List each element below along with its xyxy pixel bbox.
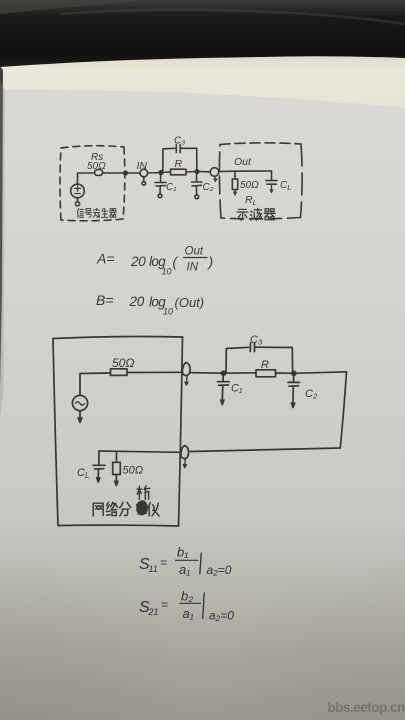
node junction C2b (292, 371, 296, 375)
capacitor C2 (192, 172, 203, 199)
fraction bar S21 (180, 602, 202, 604)
resistor R (171, 169, 187, 175)
svg-text:R: R (261, 359, 269, 371)
label C2 (203, 182, 214, 193)
svg-text:bbs.eetop.cn: bbs.eetop.cn (328, 700, 405, 715)
node Out (210, 168, 219, 182)
svg-text:C₂: C₂ (305, 388, 318, 400)
label Rs (91, 152, 103, 163)
svg-text:Out: Out (185, 246, 204, 258)
scribbled-out character (137, 501, 148, 515)
resistor Rs (94, 169, 104, 175)
capacitor CL (266, 171, 277, 193)
label: network analyzer 网络分(析)仪 (93, 486, 159, 516)
capacitor C3 bypass (circuit2) (226, 343, 293, 373)
svg-text:C₃: C₃ (250, 334, 263, 346)
label 50ohm source c2 (112, 356, 134, 370)
svg-text:b₁: b₁ (177, 545, 188, 560)
wire port1 to C1 (190, 372, 224, 375)
node junction C1b (222, 371, 226, 375)
wire source to Rs (78, 173, 94, 184)
svg-text:R: R (175, 158, 183, 170)
wire R to C2 junction (276, 372, 295, 374)
label R (175, 158, 183, 170)
source (AC) (72, 395, 87, 422)
label 50ohm load (240, 180, 259, 191)
svg-text:a₁: a₁ (183, 606, 194, 621)
svg-text:C₁: C₁ (231, 383, 243, 395)
label 50ohm source (87, 161, 106, 172)
svg-text:50Ω: 50Ω (87, 161, 106, 172)
wire IN to C1 junction (148, 172, 171, 173)
wire R to C2 junction (186, 171, 210, 174)
bar S11 (200, 553, 202, 575)
svg-text:IN: IN (187, 262, 199, 274)
svg-text:10: 10 (163, 307, 173, 317)
capacitor C2 (circuit2) (288, 373, 300, 407)
black cable (0, 0, 405, 67)
formula S11 (139, 545, 232, 578)
svg-text:a₁: a₁ (179, 562, 190, 577)
svg-text:IN: IN (137, 160, 148, 172)
fraction bar Out/IN (183, 257, 208, 259)
source V1 (71, 184, 85, 206)
port 1 (182, 363, 190, 386)
wire source to 50ohm (80, 373, 110, 395)
resistor 50ohm (source) (111, 369, 128, 376)
bar S21 (203, 593, 205, 620)
node junction (124, 171, 128, 175)
formula A (96, 246, 213, 277)
dashed box: oscilloscope (220, 143, 301, 145)
node junction C1 (159, 171, 163, 175)
watermark bbs.eetop.cn (328, 700, 405, 715)
dashed box: signal generator (60, 146, 125, 221)
svg-text:b₂: b₂ (181, 589, 193, 604)
circuit 2 labels (77, 334, 318, 480)
bottom corner shading (0, 560, 405, 720)
svg-text:20: 20 (130, 254, 146, 269)
svg-text:B=: B= (96, 292, 114, 308)
wire port2 into box (99, 451, 181, 452)
svg-text:C₂: C₂ (203, 182, 214, 193)
capacitor C1 (circuit2) (218, 373, 230, 404)
label CL c2 (77, 467, 89, 480)
wire 50ohm to port1 (127, 371, 182, 373)
formula B (96, 292, 204, 317)
svg-text:A=: A= (96, 251, 115, 267)
label IN (137, 160, 148, 172)
top circuit labels (87, 136, 291, 208)
label CL (280, 180, 291, 192)
label C1 (166, 182, 176, 193)
node IN (140, 169, 148, 185)
label: oscilloscope 示波器 (237, 208, 275, 220)
svg-text:50Ω: 50Ω (240, 180, 259, 191)
wire C2 to right loop down to port2 (190, 372, 347, 452)
svg-text:50Ω: 50Ω (112, 356, 134, 370)
formula S21 (139, 589, 234, 623)
wire Rs to IN node (104, 172, 140, 174)
label C2 c2 (305, 388, 318, 400)
capacitor C3 bypass loop (163, 145, 197, 173)
svg-text:20: 20 (129, 294, 145, 309)
resistor 50ohm (load, circuit2) (113, 451, 121, 485)
svg-text:Out: Out (234, 156, 252, 168)
label Out (234, 156, 252, 168)
label C3 c2 (250, 334, 263, 346)
svg-text:10: 10 (162, 267, 172, 277)
label RL (245, 194, 257, 207)
cream table strip (0, 48, 405, 108)
resistor 50ohm (load) (232, 171, 237, 195)
node junction C2 (195, 170, 199, 174)
label R c2 (261, 359, 269, 371)
svg-text:50Ω: 50Ω (123, 465, 144, 477)
svg-text:C₃: C₃ (174, 136, 185, 147)
left dark edge (0, 66, 5, 420)
capacitor C1 (155, 173, 166, 198)
label 50ohm load c2 (123, 465, 144, 477)
svg-text:(Out): (Out) (175, 295, 205, 310)
label: signal generator 信号发生器 (77, 208, 116, 217)
capacitor CL (circuit2) (93, 451, 105, 482)
label C1 c2 (231, 383, 243, 395)
correction character 析 above (137, 486, 150, 499)
network analyzer box (53, 337, 183, 527)
wire Out into scope (219, 170, 272, 173)
wire C1 to R (224, 372, 257, 374)
port 2 (181, 446, 189, 468)
label C3 (174, 136, 185, 147)
svg-text:C₁: C₁ (166, 182, 176, 193)
fraction bar S11 (175, 559, 199, 561)
resistor R (circuit2) (256, 370, 276, 377)
